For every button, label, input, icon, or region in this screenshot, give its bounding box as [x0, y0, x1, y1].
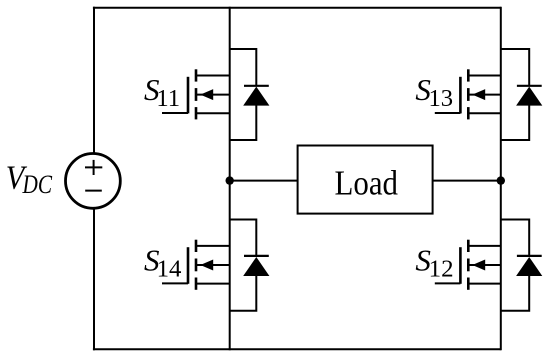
diode D11	[243, 86, 269, 106]
label S11	[144, 72, 180, 112]
transistor S13	[435, 69, 501, 119]
diode D13	[516, 86, 542, 106]
wire S13 diode branch	[501, 49, 529, 140]
svg-text:Load: Load	[335, 163, 399, 202]
label S13	[415, 72, 453, 112]
diode D14	[243, 256, 269, 276]
wire S12 diode branch	[501, 220, 529, 311]
wire S11 diode branch	[230, 49, 257, 140]
wire top rail	[93, 7, 501, 9]
wire node A to load	[230, 180, 298, 182]
svg-text:12: 12	[429, 256, 454, 282]
wire right leg vertical	[500, 7, 502, 350]
wire S14 diode branch	[230, 220, 257, 311]
label S12	[415, 243, 453, 283]
node B (right midpoint junction)	[497, 176, 505, 184]
load box	[298, 146, 433, 214]
svg-text:DC: DC	[22, 170, 53, 199]
svg-text:14: 14	[157, 256, 182, 282]
svg-text:11: 11	[156, 86, 180, 112]
wire bottom rail	[93, 348, 501, 350]
wire load to node B	[433, 180, 501, 182]
label S14	[144, 243, 181, 283]
svg-text:13: 13	[429, 86, 454, 112]
transistor S14	[162, 240, 230, 290]
voltage source VDC	[66, 154, 121, 209]
diode D12	[516, 256, 542, 276]
wire left lower (VDC to bottom rail)	[93, 208, 95, 350]
wire left upper (top rail to VDC)	[93, 7, 95, 154]
label VDC	[6, 159, 53, 199]
node A (left midpoint junction)	[226, 176, 234, 184]
wire left leg vertical	[229, 7, 231, 350]
transistor S11	[162, 69, 230, 119]
transistor S12	[435, 240, 501, 290]
